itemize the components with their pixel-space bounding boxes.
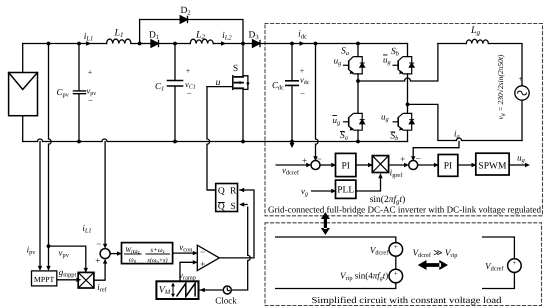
svg-text:+: +	[394, 270, 398, 278]
svg-text:−: −	[96, 239, 101, 249]
svg-text:+: +	[400, 154, 405, 164]
svg-text:−: −	[317, 154, 322, 164]
svg-text:Simplified circuit with consta: Simplified circuit with constant voltage…	[312, 295, 503, 305]
svg-text:Grid-connected full-bridge DC-: Grid-connected full-bridge DC-AC inverte…	[268, 205, 542, 215]
svg-text:Q: Q	[218, 202, 225, 212]
svg-text:PI: PI	[341, 162, 349, 172]
svg-text:+: +	[88, 67, 93, 77]
svg-text:vg = 230√2sin(2π50t): vg = 230√2sin(2π50t)	[496, 54, 506, 119]
svg-text:−: −	[88, 96, 93, 106]
svg-text:PLL: PLL	[337, 186, 354, 196]
svg-text:S: S	[233, 64, 238, 74]
svg-text:S: S	[231, 202, 236, 212]
svg-text:+: +	[95, 256, 100, 266]
svg-text:Clock: Clock	[215, 296, 237, 306]
svg-text:−: −	[200, 247, 205, 257]
svg-text:+: +	[394, 243, 398, 251]
svg-text:R: R	[230, 186, 237, 196]
svg-text:Q: Q	[218, 186, 225, 196]
svg-text:−: −	[416, 154, 421, 164]
svg-text:MPPT: MPPT	[34, 275, 55, 284]
svg-text:u: u	[216, 78, 221, 88]
svg-text:+: +	[518, 75, 523, 84]
svg-text:+: +	[186, 65, 191, 75]
svg-text:PI: PI	[444, 162, 452, 172]
svg-text:−: −	[187, 88, 192, 98]
svg-text:+: +	[200, 259, 205, 269]
svg-text:sin(2πfgt): sin(2πfgt)	[370, 195, 406, 206]
svg-text:−: −	[300, 88, 305, 98]
svg-text:SPWM: SPWM	[478, 162, 507, 172]
svg-text:+: +	[512, 259, 516, 267]
svg-text:+: +	[302, 155, 307, 165]
